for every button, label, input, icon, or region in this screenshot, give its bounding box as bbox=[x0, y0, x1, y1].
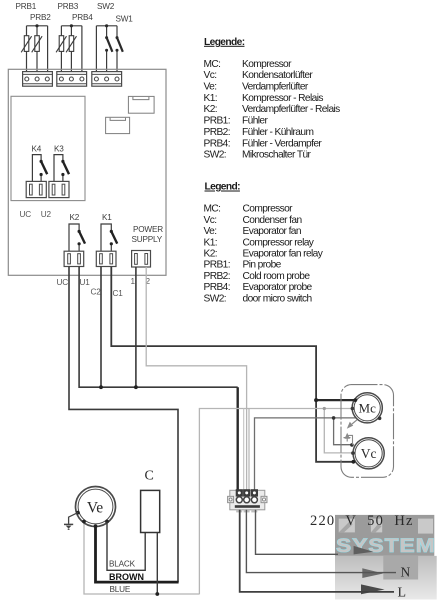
wire 1 bbox=[135, 267, 137, 387]
wire 2 (gray neutral from power supply) bbox=[146, 267, 246, 491]
logo lower block bbox=[335, 556, 437, 600]
capacitor C body bbox=[141, 490, 160, 532]
svg-text:Evaporator fan: Evaporator fan bbox=[243, 226, 301, 237]
svg-text:Condenser fan: Condenser fan bbox=[243, 215, 302, 226]
connector K3 bbox=[49, 181, 69, 197]
board outline bbox=[8, 69, 166, 275]
svg-text:Pin probe: Pin probe bbox=[243, 260, 282, 271]
svg-text:Ve: Ve bbox=[87, 500, 103, 517]
wire Mc feed bbox=[316, 399, 355, 401]
Vc protector arrow bbox=[344, 433, 353, 445]
logo top block bbox=[335, 515, 434, 556]
logo arrow 1 bbox=[354, 546, 374, 555]
svg-text:PRB3: PRB3 bbox=[58, 2, 79, 11]
motor Vc bbox=[353, 438, 384, 469]
svg-text:PRB4:: PRB4: bbox=[204, 138, 230, 149]
wire U1 live bus bbox=[79, 267, 238, 388]
svg-text:PRB1:: PRB1: bbox=[204, 116, 230, 127]
node PRB3/4 bus junction bbox=[70, 24, 73, 27]
svg-text:SW1: SW1 bbox=[116, 15, 134, 24]
svg-text:C: C bbox=[145, 469, 154, 484]
node Vc live terminal bbox=[352, 460, 356, 464]
svg-text:N: N bbox=[401, 565, 411, 580]
svg-text:C1: C1 bbox=[113, 289, 124, 298]
svg-text:Cold room probe: Cold room probe bbox=[243, 271, 311, 282]
svg-text:PRB1:: PRB1: bbox=[204, 260, 230, 271]
svg-text:1: 1 bbox=[131, 277, 136, 286]
svg-text:MC:: MC: bbox=[204, 204, 221, 215]
svg-text:PRB2: PRB2 bbox=[30, 13, 51, 22]
relay K1 bbox=[101, 224, 117, 251]
svg-text:K1:: K1: bbox=[204, 237, 218, 248]
svg-text:Fühler - Verdampfer: Fühler - Verdampfer bbox=[242, 138, 322, 149]
wire terminal to earth bbox=[256, 510, 339, 555]
node PRB bus junction bbox=[35, 24, 38, 27]
node Mc live terminal bbox=[353, 398, 357, 402]
svg-text:Ve:: Ve: bbox=[204, 226, 217, 237]
ground symbol bbox=[64, 511, 80, 530]
svg-text:BLUE: BLUE bbox=[110, 585, 131, 594]
svg-text:Evaporator probe: Evaporator probe bbox=[243, 282, 313, 293]
svg-text:K4: K4 bbox=[32, 145, 42, 154]
svg-text:PRB2:: PRB2: bbox=[204, 127, 230, 138]
wire U1 drop to terminal block bbox=[236, 387, 238, 490]
svg-text:SW2:: SW2: bbox=[204, 293, 227, 304]
connector K1 bbox=[96, 251, 116, 266]
svg-text:Verdampferlüfter - Relais: Verdampferlüfter - Relais bbox=[242, 104, 340, 115]
terminal block bar bbox=[235, 505, 260, 508]
node Mc protector terminal bbox=[378, 417, 382, 421]
terminal block clamp rings bbox=[236, 497, 242, 503]
svg-text:K1: K1 bbox=[102, 213, 112, 222]
wire neutral drop to terminal (b) bbox=[248, 409, 250, 491]
thermistor PRB2 bbox=[32, 36, 42, 53]
node Ve blue terminal bbox=[82, 520, 86, 524]
svg-text:Legend:: Legend: bbox=[205, 182, 241, 193]
svg-text:UC: UC bbox=[20, 210, 32, 219]
svg-text:PRB2:: PRB2: bbox=[204, 271, 230, 282]
svg-text:SW2: SW2 bbox=[97, 2, 115, 11]
svg-text:K3: K3 bbox=[54, 145, 64, 154]
svg-text:Mikroschalter Tür: Mikroschalter Tür bbox=[242, 150, 312, 161]
wire protector branch to Vc bbox=[334, 418, 352, 445]
node Vc neutral terminal bbox=[351, 451, 355, 455]
inner relay box bbox=[11, 96, 85, 200]
svg-text:K2:: K2: bbox=[204, 104, 218, 115]
relay K4 bbox=[32, 155, 47, 182]
node Ve black terminal bbox=[105, 520, 109, 524]
terminal block body bbox=[230, 490, 265, 510]
wire bus PRB3/4 bbox=[61, 26, 82, 72]
logo arrow 2 bbox=[362, 568, 383, 578]
wire neutral drop to terminal (a) bbox=[243, 409, 245, 491]
svg-text:U1: U1 bbox=[80, 278, 91, 287]
node SW bus junction bbox=[105, 24, 108, 27]
svg-text:UC: UC bbox=[57, 278, 69, 287]
terminal block screws top bbox=[236, 489, 243, 496]
svg-text:BLACK: BLACK bbox=[109, 560, 136, 569]
wire terminal to N bbox=[246, 510, 396, 573]
connector PRB1/PRB2 bbox=[23, 72, 53, 87]
svg-text:Evaporator fan relay: Evaporator fan relay bbox=[243, 249, 324, 260]
enclosure rounded box bbox=[341, 385, 394, 478]
terminal block side tabs bbox=[228, 496, 234, 502]
relay K3 bbox=[54, 155, 69, 182]
svg-text:Kondensatorlüfter: Kondensatorlüfter bbox=[242, 70, 313, 81]
svg-text:SW2:: SW2: bbox=[204, 150, 227, 161]
svg-text:U2: U2 bbox=[41, 210, 52, 219]
svg-text:SYSTEM: SYSTEM bbox=[336, 536, 436, 557]
svg-text:Compressor relay: Compressor relay bbox=[243, 237, 315, 248]
connector POWER SUPPLY bbox=[132, 251, 151, 268]
svg-text:K2: K2 bbox=[70, 213, 80, 222]
node 1/U1 junction bbox=[134, 385, 138, 389]
node Ve brown terminal bbox=[94, 524, 98, 528]
node Vc aux terminal bbox=[350, 443, 354, 447]
wire terminal to L bbox=[240, 510, 394, 592]
svg-text:Fühler - Kühlraum: Fühler - Kühlraum bbox=[242, 127, 313, 138]
svg-text:PRB4:: PRB4: bbox=[204, 282, 230, 293]
svg-text:Fühler: Fühler bbox=[242, 116, 268, 127]
svg-text:MC:: MC: bbox=[204, 59, 221, 70]
svg-text:Vc:: Vc: bbox=[204, 70, 217, 81]
svg-text:SUPPLY: SUPPLY bbox=[132, 235, 163, 244]
Mc protector arrow bbox=[347, 420, 357, 429]
node Mc neutral terminal bbox=[351, 407, 355, 411]
svg-text:Kompressor - Relais: Kompressor - Relais bbox=[242, 93, 323, 104]
node C2/U1 junction bbox=[99, 385, 103, 389]
svg-text:220 V 50 Hz: 220 V 50 Hz bbox=[310, 513, 414, 529]
wire bus PRB1/2 bbox=[27, 26, 48, 72]
wire neutral drop to Vc bbox=[324, 409, 353, 453]
connector K4 bbox=[26, 181, 46, 197]
relay K2 bbox=[69, 224, 85, 251]
svg-text:K1:: K1: bbox=[204, 93, 218, 104]
motor Ve bbox=[76, 487, 116, 527]
jumper box B bbox=[106, 117, 130, 133]
svg-text:Legende:: Legende: bbox=[204, 37, 245, 48]
connector K2 bbox=[64, 251, 84, 266]
logo arrow 3 bbox=[361, 584, 385, 594]
motor Mc bbox=[352, 393, 382, 423]
thermistor PRB1 bbox=[21, 36, 31, 53]
node C1 trunk junction bbox=[314, 398, 318, 402]
svg-text:PRB4: PRB4 bbox=[72, 13, 93, 22]
svg-text:Kompressor: Kompressor bbox=[242, 59, 292, 70]
node capacitor/blue junction bbox=[155, 592, 159, 596]
svg-text:PRB1: PRB1 bbox=[16, 2, 37, 11]
wire BROWN thick segment bbox=[96, 525, 179, 582]
thermistor PRB4 bbox=[66, 36, 76, 53]
svg-text:BROWN: BROWN bbox=[109, 572, 144, 582]
svg-text:Ve:: Ve: bbox=[204, 82, 217, 93]
switch SW1 bbox=[116, 36, 123, 52]
jumper box A bbox=[128, 96, 154, 113]
svg-text:door micro switch: door micro switch bbox=[243, 293, 312, 304]
svg-text:Vc:: Vc: bbox=[204, 215, 217, 226]
wire C1 to motors trunk bbox=[111, 267, 353, 462]
wire BLACK bbox=[107, 522, 145, 571]
svg-text:Compressor: Compressor bbox=[243, 204, 294, 215]
node neutral junction bbox=[323, 407, 326, 410]
svg-text:POWER: POWER bbox=[133, 225, 163, 234]
switch SW2 bbox=[105, 36, 112, 52]
svg-text:C2: C2 bbox=[91, 288, 102, 297]
svg-text:Mc: Mc bbox=[359, 400, 377, 415]
svg-text:K2:: K2: bbox=[204, 249, 218, 260]
svg-text:Verdampferlüfter: Verdampferlüfter bbox=[242, 82, 309, 93]
wire C2 bbox=[100, 267, 102, 388]
wire capacitor to blue bbox=[156, 533, 158, 595]
wire protector line bbox=[255, 418, 380, 491]
node protector junction bbox=[332, 416, 336, 420]
connector PRB3/PRB4 bbox=[57, 72, 87, 87]
svg-text:L: L bbox=[398, 586, 407, 600]
wire neutral gray from Ve BLUE up and across bbox=[84, 409, 352, 595]
connector SW2/SW1 bbox=[92, 72, 122, 87]
svg-text:Vc: Vc bbox=[361, 446, 377, 461]
wire bus SW bbox=[96, 26, 117, 72]
thermistor PRB3 bbox=[56, 36, 66, 53]
wire UC (brown live to Ve) bbox=[69, 267, 178, 583]
